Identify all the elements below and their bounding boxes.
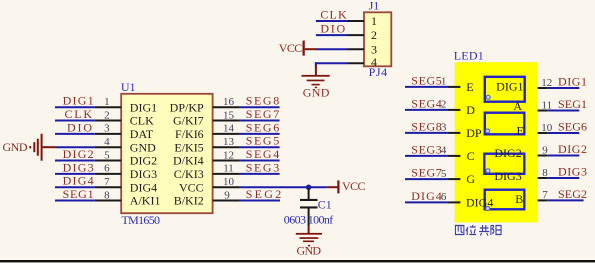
svg-text:SEG7: SEG7 (246, 107, 280, 121)
svg-text:1: 1 (441, 76, 447, 88)
svg-text:DIG4: DIG4 (63, 174, 94, 188)
svg-text:4: 4 (441, 145, 447, 157)
svg-text:G: G (466, 172, 475, 186)
svg-text:8: 8 (542, 167, 548, 179)
svg-text:SEG1: SEG1 (63, 187, 94, 201)
svg-text:SEG5: SEG5 (411, 73, 442, 87)
svg-text:D: D (466, 103, 475, 117)
svg-text:SEG7: SEG7 (411, 166, 442, 180)
svg-text:5: 5 (104, 149, 110, 161)
svg-text:F: F (517, 123, 524, 137)
svg-text:GND: GND (297, 244, 322, 258)
svg-text:C/KI3: C/KI3 (174, 167, 204, 181)
svg-text:8: 8 (104, 189, 110, 201)
svg-text:7: 7 (542, 189, 548, 201)
svg-text:VCC: VCC (179, 180, 204, 194)
svg-text:DIG3: DIG3 (494, 169, 521, 183)
svg-text:U1: U1 (121, 80, 136, 94)
svg-text:DIG3: DIG3 (63, 160, 94, 174)
svg-text:SEG3: SEG3 (411, 142, 442, 156)
svg-text:SEG8: SEG8 (411, 119, 442, 133)
svg-text:0603 100nf: 0603 100nf (284, 213, 334, 227)
svg-text:VCC: VCC (279, 41, 303, 55)
svg-text:E: E (466, 80, 473, 94)
svg-text:3: 3 (441, 122, 447, 134)
svg-text:A: A (513, 99, 522, 113)
svg-text:DIG2: DIG2 (63, 147, 94, 161)
svg-text:DP: DP (466, 126, 482, 140)
svg-text:SEG3: SEG3 (246, 160, 280, 174)
svg-text:C: C (467, 149, 475, 163)
svg-text:DIO: DIO (320, 22, 345, 36)
svg-text:F/KI6: F/KI6 (175, 127, 204, 141)
svg-text:DIG1: DIG1 (558, 75, 587, 89)
svg-text:SEG4: SEG4 (246, 147, 280, 161)
svg-text:SEG5: SEG5 (246, 134, 280, 148)
svg-text:DIG2: DIG2 (130, 154, 157, 168)
svg-text:DIG1: DIG1 (130, 100, 157, 114)
svg-text:10: 10 (223, 176, 235, 188)
svg-text:DIG4: DIG4 (411, 189, 442, 203)
svg-text:CLK: CLK (65, 107, 93, 121)
svg-text:DIG3: DIG3 (130, 167, 157, 181)
svg-text:GND: GND (303, 85, 330, 99)
svg-text:B/KI2: B/KI2 (174, 194, 204, 208)
svg-text:9: 9 (542, 144, 548, 156)
svg-text:SEG4: SEG4 (411, 96, 442, 110)
svg-text:DIG2: DIG2 (494, 146, 521, 160)
svg-text:6: 6 (441, 191, 447, 203)
svg-text:4: 4 (371, 55, 377, 69)
svg-text:12: 12 (541, 77, 552, 89)
svg-text:DIG4: DIG4 (466, 195, 493, 209)
svg-text:15: 15 (223, 109, 235, 121)
svg-text:DIG1: DIG1 (496, 80, 523, 94)
svg-text:10: 10 (541, 122, 553, 134)
svg-text:12: 12 (223, 149, 234, 161)
svg-text:SEG8: SEG8 (246, 94, 280, 108)
svg-text:B: B (515, 192, 523, 206)
svg-text:16: 16 (223, 96, 235, 108)
svg-text:SEG2: SEG2 (558, 187, 587, 201)
svg-text:9: 9 (224, 189, 230, 201)
svg-text:5: 5 (441, 168, 447, 180)
svg-text:2: 2 (104, 109, 110, 121)
svg-text:SEG2: SEG2 (246, 187, 282, 201)
svg-text:CLK: CLK (130, 114, 154, 128)
svg-text:13: 13 (223, 136, 235, 148)
svg-text:DIG2: DIG2 (558, 142, 587, 156)
svg-text:DIG4: DIG4 (130, 180, 157, 194)
svg-text:DIO: DIO (67, 120, 92, 134)
svg-text:7: 7 (104, 176, 110, 188)
svg-text:GND: GND (3, 140, 28, 154)
svg-text:2: 2 (441, 99, 447, 111)
svg-text:TM1650: TM1650 (122, 213, 161, 227)
svg-text:SEG6: SEG6 (246, 120, 280, 134)
svg-text:GND: GND (130, 140, 156, 154)
svg-text:DIG1: DIG1 (63, 94, 94, 108)
svg-text:C1: C1 (318, 197, 332, 211)
svg-text:6: 6 (104, 163, 110, 175)
svg-text:SEG1: SEG1 (558, 97, 587, 111)
svg-text:3: 3 (371, 42, 377, 56)
svg-text:2: 2 (371, 28, 377, 42)
svg-text:A/KI1: A/KI1 (130, 194, 161, 208)
svg-text:J1: J1 (369, 0, 380, 13)
svg-text:E/KI5: E/KI5 (174, 140, 203, 154)
svg-text:1: 1 (104, 96, 110, 108)
svg-text:4: 4 (104, 136, 110, 148)
svg-text:SEG6: SEG6 (558, 120, 587, 134)
svg-text:D/KI4: D/KI4 (173, 154, 204, 168)
svg-text:VCC: VCC (342, 179, 366, 193)
svg-text:G/KI7: G/KI7 (173, 114, 204, 128)
svg-text:3: 3 (104, 123, 110, 135)
svg-text:14: 14 (223, 123, 235, 135)
svg-text:CLK: CLK (320, 7, 347, 21)
svg-text:1: 1 (371, 14, 377, 28)
svg-text:LED1: LED1 (454, 49, 484, 63)
svg-text:DP/KP: DP/KP (170, 100, 204, 114)
svg-text:DIG3: DIG3 (558, 165, 587, 179)
svg-text:DAT: DAT (130, 127, 154, 141)
svg-text:11: 11 (223, 163, 234, 175)
svg-text:11: 11 (542, 99, 553, 111)
